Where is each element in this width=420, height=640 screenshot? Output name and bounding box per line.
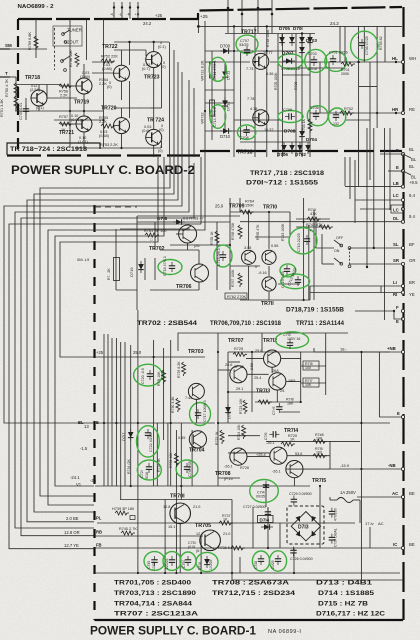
svg-text:100/25: 100/25 bbox=[209, 560, 213, 570]
svg-text:C7>5: C7>5 bbox=[272, 406, 276, 415]
svg-text:BL: BL bbox=[409, 164, 415, 169]
connector LI bbox=[401, 284, 404, 287]
svg-text:3.08: 3.08 bbox=[244, 246, 251, 250]
svg-text:TR7I0: TR7I0 bbox=[263, 205, 277, 211]
green circle C728 bbox=[252, 551, 269, 571]
connector SL bbox=[401, 246, 404, 249]
diode D714 bbox=[258, 516, 274, 530]
svg-text:TR705: TR705 bbox=[195, 523, 211, 529]
svg-text:BE: BE bbox=[409, 491, 415, 496]
middle board-1 top: wires bbox=[95, 198, 330, 310]
svg-text:SM: SM bbox=[5, 43, 12, 48]
diode D703 bbox=[299, 38, 317, 56]
svg-text:(0): (0) bbox=[107, 85, 112, 89]
svg-text:TR707 : 2SC1213A: TR707 : 2SC1213A bbox=[114, 611, 199, 618]
svg-text:100V 16: 100V 16 bbox=[287, 337, 300, 341]
board-1 main rails bbox=[95, 357, 404, 580]
transistor TR709 TR710 pair bbox=[242, 250, 277, 264]
svg-text:24.2: 24.2 bbox=[330, 21, 339, 26]
resistor R715 box bbox=[303, 361, 319, 370]
svg-text:-26.1: -26.1 bbox=[224, 465, 233, 469]
diode D717 bbox=[121, 429, 134, 441]
connector AC bbox=[401, 495, 404, 498]
svg-text:TR703,713 : 2SC1890: TR703,713 : 2SC1890 bbox=[114, 590, 197, 597]
svg-text:C706: C706 bbox=[310, 106, 319, 110]
svg-text:+25: +25 bbox=[200, 14, 208, 19]
zener box D719 area bbox=[107, 258, 120, 281]
green circle C732 bbox=[329, 108, 346, 126]
svg-text:R767 100K: R767 100K bbox=[231, 269, 235, 287]
resistor R718 bbox=[258, 398, 294, 406]
wire junction dots bbox=[69, 50, 378, 574]
svg-text:WH: WH bbox=[409, 56, 416, 61]
svg-text:D708: D708 bbox=[284, 129, 296, 135]
svg-text:OFF: OFF bbox=[336, 236, 344, 240]
svg-text:BR: BR bbox=[409, 280, 415, 285]
pot VR731 bbox=[201, 60, 215, 81]
svg-text:R751 3.3K: R751 3.3K bbox=[0, 99, 4, 117]
transistor TR705 bbox=[168, 523, 230, 551]
svg-text:R762 270K: R762 270K bbox=[227, 295, 246, 299]
svg-text:(0.1): (0.1) bbox=[36, 106, 45, 110]
transistor TR707 bbox=[225, 363, 247, 391]
svg-text:V1: V1 bbox=[76, 482, 82, 487]
capacitor C749 bbox=[19, 102, 29, 120]
transistor TR721 bbox=[59, 116, 92, 144]
svg-text:C720 -0.5: C720 -0.5 bbox=[141, 368, 145, 384]
svg-text:BL: BL bbox=[411, 175, 417, 180]
svg-text:TR722: TR722 bbox=[102, 44, 118, 50]
resistor R752 bbox=[101, 55, 118, 64]
svg-text:D7I3: D7I3 bbox=[298, 525, 309, 531]
svg-text:TR706,709,710 : 2SC1918: TR706,709,710 : 2SC1918 bbox=[210, 320, 282, 327]
svg-text:RB: RB bbox=[96, 530, 102, 535]
green circle C730b D716 bbox=[196, 552, 218, 571]
svg-text:100: 100 bbox=[305, 366, 311, 370]
svg-text:LB: LB bbox=[393, 181, 399, 186]
svg-text:29.1: 29.1 bbox=[236, 387, 243, 391]
green circle C709 bbox=[278, 108, 303, 123]
transistor TR712 bbox=[264, 350, 281, 367]
svg-text:-24.1: -24.1 bbox=[70, 475, 80, 480]
svg-text:20/25: 20/25 bbox=[271, 560, 275, 569]
svg-text:12.8: 12.8 bbox=[163, 505, 170, 509]
resistor R730 bbox=[171, 396, 180, 413]
svg-text:D7I8: D7I8 bbox=[157, 216, 167, 222]
svg-text:-L: -L bbox=[119, 13, 122, 17]
diode D708 bbox=[284, 129, 296, 135]
svg-text:AC: AC bbox=[378, 521, 384, 526]
svg-text:12.7 YE: 12.7 YE bbox=[64, 543, 79, 548]
svg-text:9.4: 9.4 bbox=[409, 214, 416, 219]
svg-text:7.73: 7.73 bbox=[246, 67, 253, 71]
board-2 right: main verticals bbox=[205, 21, 385, 180]
svg-text:R702: R702 bbox=[344, 107, 353, 111]
svg-text:TR712,715 : 2SD234: TR712,715 : 2SD234 bbox=[212, 590, 296, 597]
connector IC bbox=[401, 546, 404, 549]
svg-text:D7I4: D7I4 bbox=[260, 517, 270, 522]
svg-text:TR701,705 : 2SD400: TR701,705 : 2SD400 bbox=[114, 580, 192, 587]
svg-text:C715 0/6.3: C715 0/6.3 bbox=[217, 248, 221, 266]
labels TR722 area bbox=[102, 63, 113, 89]
diode D718 bbox=[157, 216, 204, 225]
resistor R748 bbox=[266, 29, 270, 47]
svg-text:TR717 ,718 : 2SC1918: TR717 ,718 : 2SC1918 bbox=[250, 170, 324, 177]
svg-text:18K: 18K bbox=[287, 402, 294, 406]
transistor TR718 lower bbox=[237, 107, 274, 156]
svg-text:D703: D703 bbox=[306, 38, 317, 43]
svg-text:15.1: 15.1 bbox=[168, 525, 175, 529]
svg-text:HR: HR bbox=[392, 107, 399, 112]
svg-text:0M..L9: 0M..L9 bbox=[77, 257, 90, 262]
svg-text:R703 1K: R703 1K bbox=[302, 118, 306, 133]
resistor R702 bbox=[340, 107, 354, 115]
diode D711 bbox=[222, 62, 230, 131]
svg-text:150K: 150K bbox=[245, 204, 254, 208]
box outline around TR703 bbox=[178, 333, 348, 351]
board-2 right: horizontals bbox=[198, 25, 402, 142]
svg-text:(0.68): (0.68) bbox=[99, 134, 110, 138]
svg-text:D707: D707 bbox=[282, 51, 294, 57]
svg-text:25.9: 25.9 bbox=[215, 204, 224, 209]
resistor R751 bbox=[0, 96, 18, 117]
svg-text:TR720: TR720 bbox=[101, 106, 117, 112]
svg-text:TR718: TR718 bbox=[237, 150, 253, 156]
svg-text:R752 22K: R752 22K bbox=[101, 55, 118, 59]
svg-text:D719: D719 bbox=[129, 267, 134, 277]
resistor R726 bbox=[250, 362, 261, 380]
connector LB bbox=[401, 185, 404, 188]
connector HR bbox=[401, 111, 404, 114]
svg-text:10.37: 10.37 bbox=[264, 128, 274, 132]
parts list bottom middle bbox=[212, 580, 296, 598]
svg-text:26A: 26A bbox=[272, 369, 279, 373]
svg-text:(1.01): (1.01) bbox=[78, 140, 89, 144]
verticals right middle bbox=[340, 26, 390, 320]
svg-text:12.8 OR: 12.8 OR bbox=[64, 530, 80, 535]
svg-text:S2OUT: S2OUT bbox=[64, 40, 79, 45]
resistor R720 bbox=[281, 434, 297, 446]
svg-text:R750 4.7K: R750 4.7K bbox=[5, 79, 9, 97]
central amp wires bbox=[218, 333, 390, 580]
green circle C714 left bbox=[210, 105, 226, 129]
wires TR722/720/723/724 region bbox=[114, 41, 169, 148]
resistor R729 bbox=[177, 361, 186, 378]
labels rails bbox=[96, 350, 142, 355]
transistor TR714 bbox=[256, 447, 302, 464]
svg-text:C705 10/16: C705 10/16 bbox=[281, 67, 300, 71]
capacitor C716 bbox=[264, 431, 279, 445]
labels TR709/710 bbox=[244, 244, 278, 269]
svg-text:R765 1K: R765 1K bbox=[210, 231, 214, 245]
resistor R737 bbox=[219, 514, 233, 525]
svg-text:21.0: 21.0 bbox=[193, 505, 200, 509]
svg-text:R729 8.2K: R729 8.2K bbox=[177, 361, 181, 378]
svg-text:C734 DUAL: C734 DUAL bbox=[334, 528, 338, 547]
svg-text:BL: BL bbox=[409, 147, 415, 152]
wire stubs between border rows bbox=[310, 286, 381, 300]
svg-text:C749 0.01: C749 0.01 bbox=[19, 102, 23, 120]
svg-text:220/25: 220/25 bbox=[165, 559, 169, 569]
green circle C708 bbox=[237, 125, 255, 140]
pot VR732 bbox=[201, 100, 215, 124]
svg-text:+R: +R bbox=[135, 13, 140, 17]
svg-text:C701 10/16: C701 10/16 bbox=[329, 51, 348, 55]
svg-text:TR7II: TR7II bbox=[261, 301, 274, 307]
svg-text:(0.88): (0.88) bbox=[102, 67, 113, 71]
parts list bottom left bbox=[114, 580, 199, 618]
svg-text:12.7: 12.7 bbox=[196, 532, 203, 536]
svg-text:7.45: 7.45 bbox=[185, 396, 192, 400]
svg-text:47K: 47K bbox=[310, 212, 317, 216]
green circle C706 bbox=[307, 106, 328, 126]
svg-text:VR732: VR732 bbox=[201, 112, 205, 124]
svg-text:(0.6): (0.6) bbox=[142, 129, 151, 133]
svg-text:+25.4: +25.4 bbox=[256, 453, 266, 457]
labels right mid bbox=[340, 347, 350, 469]
tuner switch box bbox=[53, 26, 82, 46]
svg-text:2.2K: 2.2K bbox=[60, 94, 68, 98]
svg-text:NA 06899-I: NA 06899-I bbox=[268, 629, 302, 635]
svg-text:D714 : 1S1885: D714 : 1S1885 bbox=[318, 590, 375, 597]
resistor R750 bbox=[5, 79, 18, 97]
connector DL bbox=[401, 220, 404, 223]
svg-text:+9.5: +9.5 bbox=[409, 180, 418, 185]
svg-text:-9.16: -9.16 bbox=[258, 271, 267, 275]
svg-text:C726 0.0I/500: C726 0.0I/500 bbox=[290, 557, 313, 561]
green circle C710 bbox=[289, 228, 317, 254]
svg-text:R766 470K: R766 470K bbox=[231, 222, 235, 240]
diode D712 bbox=[222, 97, 230, 111]
board-2 outline bottom edge bbox=[7, 154, 200, 156]
svg-text:TR702: TR702 bbox=[149, 246, 165, 252]
svg-text:TUNER: TUNER bbox=[67, 28, 82, 33]
svg-text:E: E bbox=[397, 411, 400, 416]
svg-text:(0.01): (0.01) bbox=[71, 118, 82, 122]
transistor TR704 bbox=[178, 431, 206, 454]
resistor R766 bbox=[231, 222, 242, 240]
resistor R740 bbox=[119, 527, 137, 535]
green circle C733 bbox=[269, 551, 286, 571]
transistor TR708 bbox=[215, 448, 249, 481]
svg-text:21.0: 21.0 bbox=[223, 532, 230, 536]
diode D719 bbox=[129, 261, 144, 277]
svg-text:D7I5: D7I5 bbox=[227, 410, 232, 419]
transistor TR706 bbox=[176, 264, 209, 290]
green circle C701 bbox=[325, 51, 348, 72]
resistor R743 bbox=[281, 223, 285, 241]
switch right (speaker) bbox=[316, 220, 351, 268]
svg-text:LC: LC bbox=[393, 193, 399, 198]
svg-text:-26.1: -26.1 bbox=[272, 470, 281, 474]
connector E BL bbox=[401, 152, 404, 155]
wires right side to connectors bbox=[240, 187, 401, 548]
svg-text:BE: BE bbox=[409, 542, 415, 547]
caption C727 bbox=[243, 505, 271, 518]
resistor R762 bbox=[225, 293, 247, 299]
svg-text:1P 15: 1P 15 bbox=[234, 365, 244, 369]
svg-text:TR709: TR709 bbox=[229, 204, 245, 210]
caption box TR718~724 bbox=[7, 143, 100, 155]
svg-text:C728: C728 bbox=[254, 561, 258, 569]
resistor R732 bbox=[157, 458, 161, 472]
green circle C735 bbox=[144, 552, 165, 571]
svg-text:100: 100 bbox=[316, 451, 322, 455]
svg-text:C736 47/25: C736 47/25 bbox=[365, 36, 369, 55]
green circle C743 bbox=[275, 332, 308, 349]
capacitor C726b bbox=[290, 547, 313, 562]
board-1 left border bbox=[93, 205, 95, 620]
svg-text:R748 150K: R748 150K bbox=[266, 29, 270, 47]
svg-text:R7.. 2K: R7.. 2K bbox=[107, 268, 111, 280]
svg-text:C735: C735 bbox=[147, 561, 151, 569]
board-1 bottom border bbox=[95, 619, 404, 621]
svg-text:TR706: TR706 bbox=[176, 284, 192, 290]
svg-text:OR: OR bbox=[409, 258, 415, 263]
green circle C712 bbox=[280, 264, 296, 277]
resistor R705 bbox=[274, 72, 278, 90]
green circle C717 bbox=[190, 400, 211, 425]
svg-text:LI: LI bbox=[393, 280, 397, 285]
resistor R761 bbox=[144, 229, 167, 242]
svg-text:+25: +25 bbox=[155, 13, 163, 18]
green circle C715 bbox=[214, 245, 232, 267]
svg-text:10/25: 10/25 bbox=[152, 561, 156, 570]
svg-text:TR704,714 : 2SA844: TR704,714 : 2SA844 bbox=[114, 601, 193, 608]
resistor R742 bbox=[306, 223, 333, 229]
connector HL bbox=[401, 60, 404, 63]
svg-text:18I5: 18I5 bbox=[288, 379, 295, 383]
connector SR bbox=[401, 262, 404, 265]
svg-text:C7I9 0/35: C7I9 0/35 bbox=[188, 461, 192, 477]
svg-text:TR7I5: TR7I5 bbox=[312, 478, 326, 484]
diode D716 label area wires bbox=[240, 548, 294, 573]
svg-text:0.55: 0.55 bbox=[178, 436, 185, 440]
resistor R734 bbox=[127, 459, 131, 474]
svg-text:R726: R726 bbox=[240, 466, 249, 470]
svg-text:0: 0 bbox=[255, 265, 257, 269]
svg-text:C7I6: C7I6 bbox=[264, 433, 268, 440]
svg-text:R723 10K: R723 10K bbox=[239, 398, 243, 414]
svg-text:C72I: C72I bbox=[140, 470, 144, 478]
green circle C736 bbox=[351, 31, 378, 60]
svg-text:(0.1): (0.1) bbox=[158, 45, 167, 49]
svg-text:-NB: -NB bbox=[388, 463, 396, 468]
green circle C713 bbox=[281, 268, 310, 289]
svg-text:C714 47/6.3: C714 47/6.3 bbox=[213, 107, 217, 127]
svg-text:25.4: 25.4 bbox=[254, 376, 261, 380]
svg-text:.132: .132 bbox=[332, 122, 339, 126]
svg-text:18.-: 18.- bbox=[340, 347, 348, 352]
green circle C707 bbox=[236, 35, 258, 56]
node T tick bbox=[0, 71, 10, 77]
switch S2 tuner contacts bbox=[61, 28, 82, 72]
connector E3 bbox=[401, 317, 404, 320]
caption C705 10/16 bbox=[281, 67, 300, 71]
svg-text:C717 100/6.3: C717 100/6.3 bbox=[203, 400, 207, 422]
svg-text:PL: PL bbox=[96, 516, 102, 521]
board-2 outline top-left bbox=[18, 7, 402, 19]
transistor TR724 bbox=[146, 118, 164, 146]
svg-text:C711 47/6.3: C711 47/6.3 bbox=[213, 61, 217, 80]
capacitor C734 bbox=[329, 528, 338, 547]
board-2 right column verticals bbox=[170, 42, 195, 157]
svg-text:10/16: 10/16 bbox=[308, 67, 317, 71]
svg-text:R733 40K: R733 40K bbox=[169, 452, 173, 468]
svg-text:R759 6.8K: R759 6.8K bbox=[28, 32, 32, 50]
svg-text:(26: (26 bbox=[194, 244, 200, 248]
svg-text:9.4: 9.4 bbox=[409, 193, 416, 198]
svg-text:2.0 BE: 2.0 BE bbox=[66, 516, 79, 521]
resistor R764 bbox=[240, 200, 254, 215]
svg-text:25.6: 25.6 bbox=[225, 363, 232, 367]
svg-text:RE: RE bbox=[409, 107, 415, 112]
green circle C714 big bbox=[250, 480, 279, 503]
svg-text:(6: (6 bbox=[196, 549, 199, 553]
resistor R725 bbox=[233, 347, 262, 356]
svg-text:D70I~712 : 1S1555: D70I~712 : 1S1555 bbox=[246, 180, 318, 187]
svg-text:D706: D706 bbox=[277, 152, 288, 157]
svg-text:ON: ON bbox=[334, 249, 340, 253]
svg-text:17.Iv: 17.Iv bbox=[365, 521, 374, 526]
svg-text:C729 0.0I/500: C729 0.0I/500 bbox=[289, 492, 312, 496]
transistor TR723 bbox=[144, 41, 167, 81]
svg-text:D705: D705 bbox=[279, 26, 290, 31]
svg-text:C718 47/6.3: C718 47/6.3 bbox=[163, 256, 167, 276]
svg-text:R724 10K: R724 10K bbox=[237, 424, 241, 440]
resistor R753 bbox=[99, 116, 115, 138]
wire: horizontals board-2 left bbox=[8, 49, 114, 124]
svg-text:SR: SR bbox=[393, 258, 400, 263]
capacitor C731 bbox=[329, 508, 338, 521]
capacitor C751 bbox=[188, 541, 199, 553]
svg-text:00/35: 00/35 bbox=[256, 495, 265, 499]
svg-text:-25: -25 bbox=[90, 478, 97, 483]
svg-text:29.: 29. bbox=[280, 389, 285, 393]
resistor R756 bbox=[59, 84, 73, 98]
diode row D705 D701 bbox=[279, 26, 313, 46]
resistor R767 bbox=[231, 269, 242, 287]
resistor R758 bbox=[69, 50, 79, 67]
svg-text:1K: 1K bbox=[290, 438, 295, 442]
transistor TR713 bbox=[256, 369, 295, 395]
svg-text:TR70I: TR70I bbox=[170, 494, 185, 500]
svg-text:D7I7: D7I7 bbox=[121, 432, 126, 441]
svg-text:-15.9: -15.9 bbox=[340, 463, 350, 468]
connector LC bbox=[401, 198, 404, 201]
svg-text:TR708 : 2SA673A: TR708 : 2SA673A bbox=[212, 580, 290, 587]
svg-text:BL: BL bbox=[411, 157, 417, 162]
green circle C722 bbox=[137, 426, 160, 457]
svg-text:R743 100K: R743 100K bbox=[281, 223, 285, 241]
svg-text:HL: HL bbox=[392, 56, 398, 61]
fuse 1A 250V bbox=[330, 490, 360, 523]
transistor TR711 bbox=[258, 271, 276, 307]
resistor R731 bbox=[157, 370, 166, 386]
svg-text:D710: D710 bbox=[220, 134, 231, 139]
svg-text:470/200: 470/200 bbox=[334, 508, 338, 521]
svg-text:E: E bbox=[96, 420, 99, 425]
svg-text:25.0: 25.0 bbox=[133, 350, 142, 355]
svg-text:TR723: TR723 bbox=[144, 75, 160, 81]
svg-text:(P.15: (P.15 bbox=[224, 477, 233, 481]
green circle C719b bbox=[176, 460, 198, 478]
svg-text:D704: D704 bbox=[306, 137, 317, 142]
resistor R739 bbox=[112, 507, 135, 520]
bridge D713 dashed box bbox=[287, 506, 324, 544]
svg-text:TR704: TR704 bbox=[189, 448, 205, 454]
svg-text:0.55: 0.55 bbox=[271, 244, 278, 248]
